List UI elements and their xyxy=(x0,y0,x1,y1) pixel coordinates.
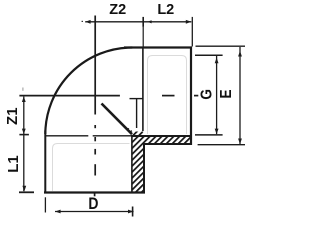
svg-text:D: D xyxy=(88,195,98,214)
svg-text:G: G xyxy=(199,89,216,100)
svg-text:L2: L2 xyxy=(157,2,174,18)
svg-text:Z1: Z1 xyxy=(4,107,21,125)
svg-text:E: E xyxy=(218,89,235,98)
svg-text:L1: L1 xyxy=(5,155,22,173)
svg-text:Z2: Z2 xyxy=(109,2,126,18)
